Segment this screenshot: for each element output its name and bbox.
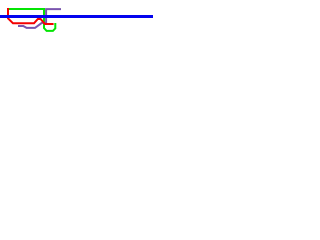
blue route line	[0, 15, 153, 18]
purple route line	[18, 9, 61, 28]
red route line	[8, 8, 54, 24]
green route line	[8, 9, 55, 31]
